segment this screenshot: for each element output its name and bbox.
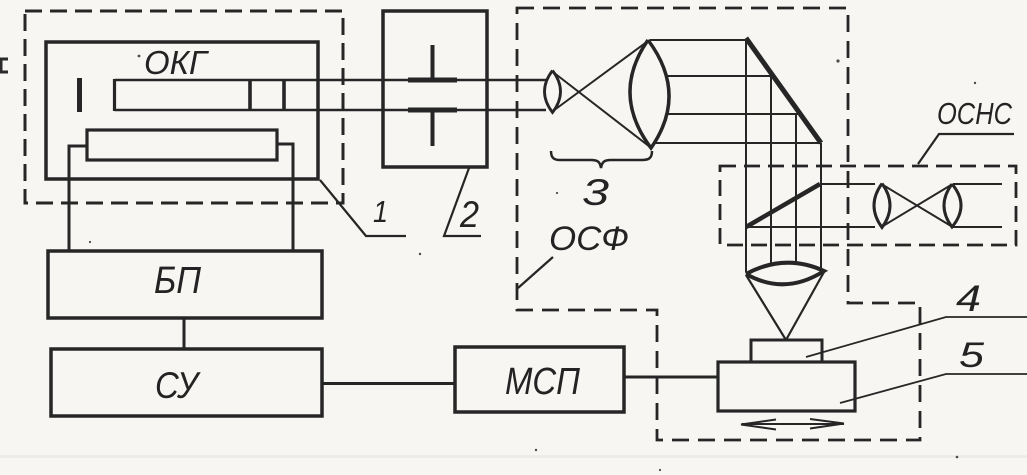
svg-text:1: 1: [373, 194, 388, 229]
leader OSF: [518, 257, 553, 288]
shutter electrode bottom: [408, 108, 457, 113]
eyepiece lens 1: [874, 184, 890, 228]
svg-text:СУ: СУ: [155, 365, 201, 406]
stage 5: [718, 362, 855, 411]
leader label 4: [806, 317, 1027, 357]
svg-text:3: 3: [582, 172, 610, 213]
output beams: [953, 183, 1002, 185]
laser rod: [113, 79, 116, 111]
svg-text:4: 4: [956, 278, 981, 319]
rays to turning mirror: [650, 39, 747, 41]
beam upper: [115, 79, 547, 81]
edge mark: [1, 59, 8, 72]
link MSP-stage: [624, 376, 718, 379]
svg-text:БП: БП: [154, 260, 201, 302]
OSNS dashed enclosure: [720, 166, 1016, 245]
scan arrow: [741, 419, 844, 430]
relay beams: [820, 183, 875, 185]
shutter electrode top: [408, 78, 457, 83]
turning mirror: [746, 38, 821, 143]
svg-text:ОСНС: ОСНС: [937, 96, 1012, 131]
OSF dashed enclosure: [517, 8, 920, 440]
link BP-SU: [183, 318, 186, 350]
svg-text:5: 5: [959, 336, 985, 375]
crossing rays: [883, 185, 951, 226]
objective lens (large): [630, 40, 669, 148]
svg-text:ОСФ: ОСФ: [549, 220, 629, 258]
eyepiece lens 2: [944, 184, 961, 227]
svg-text:МСП: МСП: [505, 361, 580, 403]
link SU-MSP: [322, 382, 455, 385]
brace 3: [551, 151, 652, 168]
box OKG: [46, 42, 318, 179]
vertical rays down: [745, 40, 747, 272]
svg-text:2: 2: [459, 194, 479, 235]
collimator lens (small): [545, 71, 561, 113]
lamp lead left: [69, 146, 87, 251]
leader label 5: [840, 374, 1027, 403]
flash lamp: [87, 130, 277, 160]
leader OSNS: [918, 134, 1014, 164]
leader label 2: [444, 168, 481, 236]
box BP: [48, 251, 322, 318]
dashed enclosure 1 (laser head): [25, 11, 343, 203]
focusing lens: [746, 263, 824, 285]
specimen 4: [751, 340, 822, 362]
lamp lead right: [277, 144, 293, 251]
beam splitter: [746, 184, 820, 227]
rear mirror: [77, 78, 82, 112]
beam lower: [115, 109, 547, 111]
expanding rays: [553, 72, 650, 147]
box MSP: [455, 347, 624, 412]
leader label 1: [320, 180, 406, 236]
svg-text:ОКГ: ОКГ: [144, 44, 209, 81]
focus cone: [746, 275, 786, 340]
box SU: [51, 349, 322, 416]
box 2 (electro-optic shutter): [383, 11, 487, 167]
